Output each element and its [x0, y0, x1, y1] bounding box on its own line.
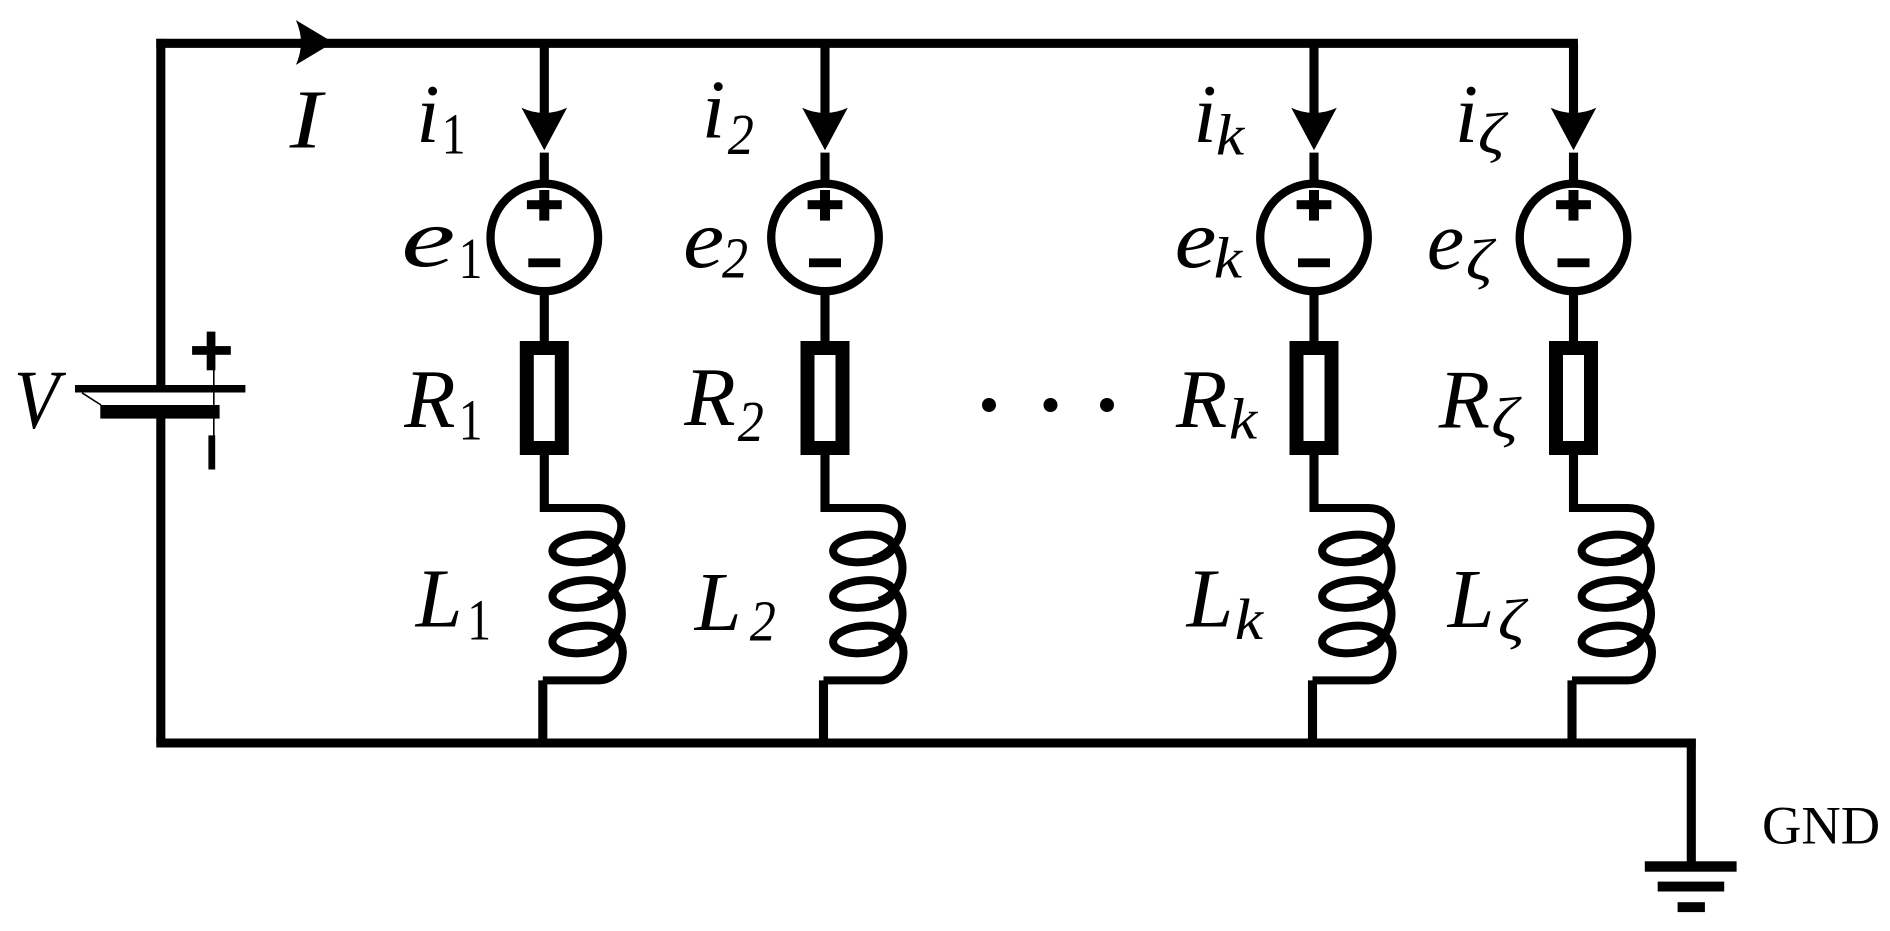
battery V: plus sign [192, 332, 231, 371]
svg-text:ζ: ζ [1466, 229, 1497, 292]
label Lzeta [1447, 553, 1529, 653]
branch k: drop wire from top bus [1309, 43, 1318, 119]
inductor Lzeta: coil [1572, 508, 1652, 680]
svg-text:e: e [683, 193, 724, 286]
branch zeta: wire source to resistor [1569, 289, 1578, 345]
battery V: negative plate [100, 405, 219, 419]
label R2 [683, 351, 763, 453]
svg-text:L: L [1447, 553, 1495, 646]
label Rzeta [1438, 354, 1522, 451]
svg-text:e: e [401, 192, 455, 285]
svg-text:i: i [702, 64, 725, 157]
battery V: thin connector line [213, 370, 215, 436]
svg-text:1: 1 [442, 103, 466, 166]
branch k: current arrow [1291, 108, 1337, 151]
branch zeta: wire arrow to source [1569, 153, 1578, 184]
svg-text:R: R [1438, 354, 1490, 447]
svg-text:L: L [694, 556, 742, 649]
label L2 [694, 556, 776, 653]
branch k: wire arrow to source [1309, 153, 1318, 184]
wire: left rail (battery + lead) [156, 39, 165, 385]
branch 2: wire source to resistor [820, 289, 829, 345]
ellipsis dots between branches [982, 398, 1114, 412]
label izeta [1455, 68, 1509, 166]
inductor L2: coil [824, 508, 904, 680]
svg-text:k: k [1216, 104, 1245, 168]
svg-text:i: i [416, 68, 439, 161]
branch 1: wire inductor to bottom bus [538, 680, 547, 743]
resistor Rk [1297, 348, 1332, 448]
voltage source e1: plus sign [527, 190, 562, 221]
voltage source e2: plus sign [808, 190, 843, 221]
branch k: wire inductor to bottom bus [1308, 680, 1317, 743]
label e1 [401, 192, 482, 291]
voltage source ezeta: plus sign [1556, 190, 1591, 221]
label i2 [702, 64, 754, 167]
label ik [1193, 68, 1245, 168]
svg-text:2: 2 [750, 589, 776, 653]
label Rk [1175, 353, 1258, 452]
svg-text:i: i [1455, 68, 1478, 161]
svg-text:k: k [1229, 388, 1258, 452]
resistor Rzeta [1556, 348, 1591, 448]
svg-text:R: R [1175, 353, 1227, 446]
branch 1: wire arrow to source [540, 153, 549, 184]
label ek [1175, 194, 1244, 291]
voltage source ek: minus sign [1298, 258, 1330, 267]
svg-text:ζ: ζ [1498, 589, 1529, 652]
ground symbol bar 3 [1678, 902, 1705, 912]
svg-text:L: L [415, 552, 463, 645]
branch zeta: wire resistor to inductor [1569, 448, 1578, 512]
svg-text:ζ: ζ [1478, 103, 1509, 166]
branch 2: wire resistor to inductor [820, 448, 829, 512]
label i1 [416, 68, 465, 167]
battery V: minus tick [208, 435, 215, 469]
svg-text:k: k [1214, 227, 1243, 291]
inductor L1: coil [543, 508, 623, 680]
branch 2: current arrow [802, 108, 848, 151]
wire: bottom bus [156, 738, 1695, 747]
branch zeta: drop wire from top bus [1569, 43, 1578, 119]
voltage source e1: minus sign [528, 258, 560, 267]
svg-text:ζ: ζ [1491, 387, 1522, 450]
branch 1: wire resistor to inductor [540, 448, 549, 512]
svg-text:1: 1 [459, 228, 483, 291]
svg-text:GND: GND [1762, 795, 1880, 856]
label L1 [415, 552, 491, 652]
ground symbol bar 2 [1658, 882, 1725, 892]
svg-text:1: 1 [459, 389, 483, 452]
wire: top bus [156, 39, 1578, 48]
branch 2: drop wire from top bus [820, 43, 829, 119]
voltage source ezeta: minus sign [1558, 258, 1590, 267]
voltage source ek: plus sign [1297, 190, 1332, 221]
inductor Lk: coil [1313, 508, 1393, 680]
svg-text:e: e [1427, 194, 1464, 287]
svg-text:e: e [1175, 194, 1217, 286]
branch 1: current arrow [522, 108, 568, 151]
svg-text:i: i [1193, 68, 1216, 161]
resistor R2 [808, 348, 843, 448]
ground symbol bar 1 [1645, 861, 1737, 871]
branch zeta: wire inductor to bottom bus [1567, 680, 1576, 743]
wire: ground stem [1687, 739, 1696, 867]
svg-text:R: R [683, 351, 735, 444]
svg-text:2: 2 [722, 226, 748, 290]
svg-text:1: 1 [467, 589, 491, 652]
battery V: leader line from label [82, 393, 101, 405]
battery V: positive plate [75, 385, 245, 393]
branch 2: wire inductor to bottom bus [819, 680, 828, 743]
label e2 [683, 193, 748, 290]
svg-text:k: k [1235, 589, 1264, 653]
branch k: wire source to resistor [1309, 289, 1318, 345]
svg-text:V: V [14, 353, 66, 446]
voltage source e2: circle [771, 184, 879, 292]
svg-text:2: 2 [728, 102, 754, 166]
voltage source ek: circle [1260, 184, 1368, 292]
arrow: bus current direction [296, 20, 333, 65]
voltage source e2: minus sign [809, 258, 841, 267]
branch 2: wire arrow to source [820, 153, 829, 184]
wire: left rail (battery - lead) [156, 419, 165, 744]
branch 1: drop wire from top bus [540, 43, 549, 119]
label ezeta [1427, 194, 1497, 292]
branch k: wire resistor to inductor [1309, 448, 1318, 512]
branch zeta: current arrow [1551, 108, 1597, 151]
voltage source e1: circle [491, 184, 599, 292]
resistor R1 [527, 348, 562, 448]
branch 1: wire source to resistor [540, 289, 549, 345]
svg-text:2: 2 [738, 389, 764, 453]
svg-text:I: I [289, 72, 326, 166]
label Lk [1186, 553, 1264, 653]
voltage source ezeta: circle [1520, 184, 1628, 292]
svg-text:R: R [403, 353, 455, 446]
label R1 [403, 353, 482, 453]
svg-text:L: L [1186, 553, 1234, 646]
